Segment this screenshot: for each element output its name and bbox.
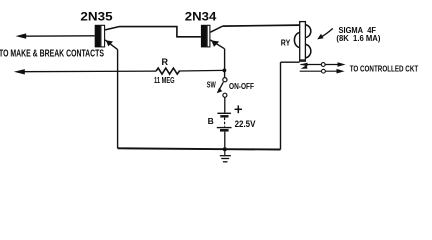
svg-text:R: R (162, 57, 169, 67)
svg-text:2N34: 2N34 (185, 10, 217, 24)
svg-text:22.5V: 22.5V (235, 119, 256, 129)
svg-text:(8K 1.6 MA): (8K 1.6 MA) (336, 34, 380, 43)
svg-text:ON-OFF: ON-OFF (229, 82, 254, 91)
svg-text:B: B (208, 116, 214, 126)
svg-text:11 MEG: 11 MEG (154, 76, 175, 85)
svg-text:2N35: 2N35 (80, 10, 113, 24)
svg-text:TO CONTROLLED CKT: TO CONTROLLED CKT (350, 63, 419, 73)
svg-text:TO MAKE & BREAK CONTACTS: TO MAKE & BREAK CONTACTS (0, 49, 104, 60)
svg-text:SW: SW (207, 81, 216, 90)
svg-text:RY: RY (281, 38, 291, 48)
